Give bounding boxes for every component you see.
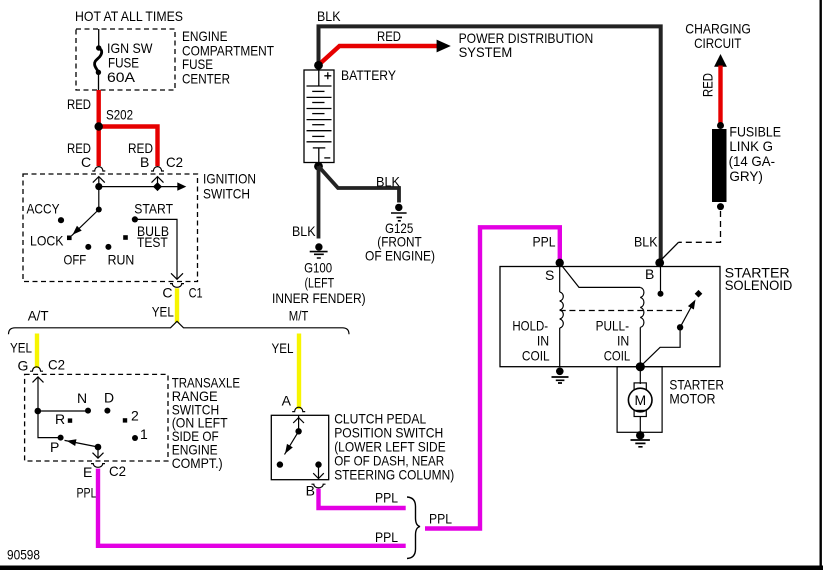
svg-text:(LEFT: (LEFT xyxy=(305,275,335,291)
connector bump C/C1 below ignition switch xyxy=(170,284,184,288)
svg-text:G100: G100 xyxy=(304,260,332,276)
wire dashed from fusible link to solenoid B xyxy=(679,211,721,242)
svg-text:C2: C2 xyxy=(48,357,65,373)
svg-text:S: S xyxy=(545,267,554,283)
svg-text:PPL: PPL xyxy=(375,490,398,506)
pull-in coil xyxy=(640,287,644,366)
svg-text:YEL: YEL xyxy=(10,340,32,356)
svg-text:S202: S202 xyxy=(106,107,133,123)
wire bus inside switch xyxy=(99,186,179,188)
wire to N contact xyxy=(38,410,88,412)
contact dot B side xyxy=(315,461,321,467)
merge brace } xyxy=(407,497,420,559)
solenoid B internal lead xyxy=(660,263,662,291)
junction dot on left feed xyxy=(35,408,42,415)
clutch switch internals xyxy=(285,415,324,478)
svg-text:C2: C2 xyxy=(109,463,126,479)
blade top dot xyxy=(295,428,301,434)
svg-text:BLK: BLK xyxy=(376,174,401,190)
contact R (square) xyxy=(68,418,72,422)
contact OFF xyxy=(85,244,91,250)
svg-text:CIRCUIT: CIRCUIT xyxy=(694,35,742,51)
svg-text:A/T: A/T xyxy=(28,308,49,324)
svg-text:C2: C2 xyxy=(166,154,183,170)
svg-text:YEL: YEL xyxy=(152,304,174,320)
contact LOCK (square) xyxy=(67,236,72,241)
pull-in coil feed xyxy=(560,263,641,287)
svg-text:B: B xyxy=(140,154,149,170)
arrowhead to charging circuit (up) xyxy=(714,54,727,67)
contact 1 xyxy=(132,435,138,441)
wire PPL from transaxle E xyxy=(98,469,406,546)
svg-text:PPL: PPL xyxy=(429,511,452,527)
svg-text:PULL-: PULL- xyxy=(596,318,630,334)
battery B1 xyxy=(304,70,334,163)
wire RED battery to power distribution xyxy=(319,46,439,65)
svg-text:RED: RED xyxy=(377,28,401,44)
svg-text:PPL: PPL xyxy=(375,529,398,545)
switch lever arrowhead xyxy=(688,298,699,310)
svg-text:B: B xyxy=(645,266,654,282)
connector bump E/C2 below transaxle switch xyxy=(91,464,105,468)
svg-text:PPL: PPL xyxy=(77,485,97,501)
svg-text:A: A xyxy=(282,393,292,409)
svg-text:HOLD-: HOLD- xyxy=(512,318,548,334)
svg-text:COIL: COIL xyxy=(604,348,631,364)
svg-text:RED: RED xyxy=(700,73,716,97)
svg-text:COMPT.): COMPT.) xyxy=(172,455,223,471)
ignition switch dashed box xyxy=(23,174,198,282)
switch contact diamond xyxy=(695,290,703,298)
wiper arrowhead toward LOCK xyxy=(70,226,82,237)
svg-text:1: 1 xyxy=(140,426,148,442)
svg-text:GRY): GRY) xyxy=(729,168,763,184)
arrow into C terminal xyxy=(93,177,105,183)
connector bump B/C2 on ignition switch top xyxy=(151,167,164,171)
starter solenoid box xyxy=(500,267,720,367)
svg-text:CENTER: CENTER xyxy=(182,71,230,87)
starter motor box xyxy=(617,367,662,433)
svg-text:SOLENOID: SOLENOID xyxy=(725,277,793,293)
wiper lever to LOCK xyxy=(72,210,99,236)
svg-text:90598: 90598 xyxy=(7,547,40,563)
svg-text:E: E xyxy=(83,464,92,480)
wire BLK battery positive to solenoid B xyxy=(319,26,661,261)
svg-text:PPL: PPL xyxy=(533,234,556,250)
contact RUN xyxy=(105,244,111,250)
svg-text:P: P xyxy=(50,439,59,455)
svg-text:RED: RED xyxy=(67,96,91,112)
starter motor M1 xyxy=(628,367,652,433)
node S202 junction xyxy=(95,122,103,130)
wiper lever from pivot to P xyxy=(65,440,99,447)
contact 2 (square) xyxy=(123,418,127,422)
svg-text:BLK: BLK xyxy=(317,8,341,24)
svg-text:OF ENGINE): OF ENGINE) xyxy=(365,248,435,264)
svg-text:B: B xyxy=(306,482,315,498)
dashed coupling line xyxy=(560,310,682,312)
lever to motor junction xyxy=(641,327,681,366)
wire down and to P contact xyxy=(38,411,61,438)
ignition switch internals xyxy=(72,177,184,280)
wiper pivot dot xyxy=(96,207,102,213)
wire RED from fuse to S202 and ignition switch xyxy=(96,90,100,166)
fusible link G xyxy=(712,122,727,210)
svg-text:INNER FENDER): INNER FENDER) xyxy=(272,290,366,306)
svg-text:STEERING COLUMN): STEERING COLUMN) xyxy=(334,466,454,482)
arrowhead on internal bus (to right) xyxy=(177,182,186,190)
svg-text:LOCK: LOCK xyxy=(30,233,64,249)
wire PPL merged to starter solenoid S xyxy=(425,227,560,528)
contact D xyxy=(104,408,110,414)
battery junction dot (negative) xyxy=(314,162,323,171)
fixed contact dot xyxy=(658,291,664,297)
wire YEL M/T branch xyxy=(297,334,301,410)
blade arrowhead xyxy=(282,444,293,456)
wire RED to charging circuit xyxy=(718,66,722,125)
arrow exiting at B xyxy=(313,473,324,478)
svg-text:2: 2 xyxy=(131,408,139,424)
wiper arrowhead toward P xyxy=(66,437,77,445)
A/T - M/T split bus xyxy=(9,321,350,334)
svg-text:60A: 60A xyxy=(107,69,136,85)
wire YEL A/T branch xyxy=(35,334,39,369)
contact P xyxy=(58,435,64,441)
fuse box (engine compartment fuse center) dashed outline xyxy=(76,29,175,90)
svg-text:D: D xyxy=(104,390,114,406)
svg-text:BLK: BLK xyxy=(634,234,658,250)
ground under starter motor xyxy=(631,431,650,447)
ground under hold-in coil xyxy=(552,368,569,384)
ground G100 xyxy=(310,243,328,258)
arrow from A terminal xyxy=(293,418,304,423)
svg-text:MOTOR: MOTOR xyxy=(669,391,715,407)
junction dot pull-in coil / motor xyxy=(636,362,645,371)
svg-text:IGNITION: IGNITION xyxy=(203,171,256,187)
terminal S dot xyxy=(556,259,564,267)
contact N xyxy=(85,408,91,414)
arrow exiting at C1 xyxy=(171,273,183,279)
connector bump G/C2 on transaxle switch xyxy=(30,367,43,371)
arrow exiting at E xyxy=(93,453,104,459)
transaxle switch internals xyxy=(33,377,104,458)
hold-in coil xyxy=(560,263,564,367)
clutch pedal position switch box xyxy=(271,415,328,479)
svg-text:N: N xyxy=(77,390,87,406)
transaxle range switch dashed box xyxy=(25,374,168,461)
connector bump B below clutch switch xyxy=(312,484,326,488)
svg-text:BATTERY: BATTERY xyxy=(341,67,397,83)
svg-text:M: M xyxy=(635,392,647,408)
svg-text:C1: C1 xyxy=(189,285,203,301)
svg-text:HOT AT ALL TIMES: HOT AT ALL TIMES xyxy=(75,8,183,24)
wire PPL from clutch B xyxy=(319,489,406,508)
fuse IGN SW FUSE 60A symbol xyxy=(95,29,102,90)
svg-text:RUN: RUN xyxy=(108,251,135,267)
terminal B dot xyxy=(655,258,664,267)
contact BULB TEST (square) xyxy=(123,235,128,240)
svg-text:SYSTEM: SYSTEM xyxy=(459,44,513,60)
contact START xyxy=(132,216,138,222)
svg-text:OFF: OFF xyxy=(64,251,87,267)
svg-text:C: C xyxy=(81,154,91,170)
arrowhead to power distribution system xyxy=(437,40,451,53)
contact ACCY xyxy=(58,217,64,223)
junction dot at B (diamond) xyxy=(153,182,162,191)
ground G125 xyxy=(391,204,407,221)
wire BLK to G100 xyxy=(317,166,321,238)
arrow into B terminal xyxy=(152,177,164,183)
svg-text:START: START xyxy=(134,201,173,217)
svg-text:R: R xyxy=(55,411,65,427)
switch pivot dot xyxy=(677,324,683,330)
svg-text:SWITCH: SWITCH xyxy=(203,186,250,202)
connector bump A on clutch switch xyxy=(292,407,305,411)
svg-text:LINK G: LINK G xyxy=(729,138,773,154)
svg-text:G: G xyxy=(18,358,29,374)
wire C feed down to wiper pivot xyxy=(98,187,100,210)
svg-text:YEL: YEL xyxy=(272,340,294,356)
svg-text:COIL: COIL xyxy=(522,348,550,364)
contact dot lower-left xyxy=(277,461,283,467)
connector bump C on ignition switch top xyxy=(92,167,105,171)
switch blade xyxy=(285,431,299,454)
svg-text:ACCY: ACCY xyxy=(27,201,61,217)
junction dot at C xyxy=(95,183,102,190)
wire YEL from ignition C1 down to split xyxy=(175,288,179,322)
svg-text:BLK: BLK xyxy=(292,223,316,239)
arrow into G terminal xyxy=(33,377,44,383)
svg-text:(14 GA-: (14 GA- xyxy=(729,153,776,169)
svg-text:TEST: TEST xyxy=(137,234,168,250)
wire from START contact to C1 exit xyxy=(135,219,177,271)
switch lever xyxy=(680,306,692,328)
svg-text:M/T: M/T xyxy=(289,308,309,324)
wire BLK to G125 xyxy=(319,166,400,202)
svg-text:IN: IN xyxy=(617,333,629,349)
svg-text:IN: IN xyxy=(537,333,549,349)
battery junction dot (positive) xyxy=(314,61,323,70)
svg-text:C: C xyxy=(162,285,172,301)
wiper pivot dot xyxy=(95,444,102,451)
